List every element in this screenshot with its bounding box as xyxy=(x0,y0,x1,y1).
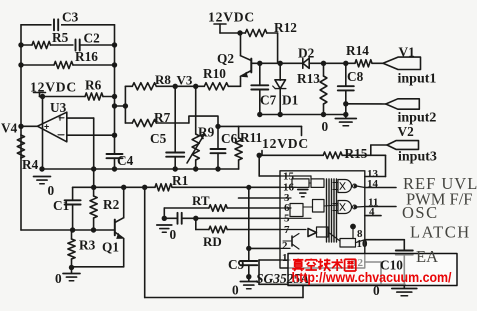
svg-text:C9: C9 xyxy=(228,257,245,272)
svg-text:OSC: OSC xyxy=(402,203,439,222)
svg-text:D2: D2 xyxy=(298,46,315,61)
svg-text:1: 1 xyxy=(282,252,288,264)
svg-text:Q1: Q1 xyxy=(102,240,119,255)
svg-text:LATCH: LATCH xyxy=(410,223,471,242)
svg-text:C3: C3 xyxy=(62,10,79,25)
svg-text:C5: C5 xyxy=(150,131,167,146)
svg-text:C2: C2 xyxy=(84,31,101,46)
svg-text:C7: C7 xyxy=(260,93,277,108)
svg-text:0: 0 xyxy=(232,283,239,298)
svg-text:input3: input3 xyxy=(398,150,437,165)
svg-text:V2: V2 xyxy=(398,124,415,139)
svg-text:EA: EA xyxy=(416,247,438,266)
svg-text:R15: R15 xyxy=(345,146,368,161)
svg-text:0: 0 xyxy=(48,183,55,198)
svg-text:+: + xyxy=(44,122,49,132)
svg-text:R1: R1 xyxy=(172,173,188,188)
svg-text:R12: R12 xyxy=(274,20,297,35)
svg-text:R11: R11 xyxy=(240,130,262,145)
svg-text:RT: RT xyxy=(192,193,210,208)
svg-text:D1: D1 xyxy=(282,93,298,108)
svg-text:0: 0 xyxy=(170,227,177,242)
svg-text:12VDC: 12VDC xyxy=(208,10,255,25)
svg-text:R2: R2 xyxy=(103,197,120,212)
svg-text:0: 0 xyxy=(55,271,62,286)
svg-text:R16: R16 xyxy=(75,49,98,64)
svg-text:C6: C6 xyxy=(221,131,238,146)
svg-text:C8: C8 xyxy=(347,69,364,84)
svg-text:http://www.chvacuum.com/: http://www.chvacuum.com/ xyxy=(292,270,452,285)
svg-text:R5: R5 xyxy=(52,30,69,45)
svg-text:2: 2 xyxy=(282,240,288,252)
svg-text:R9: R9 xyxy=(198,125,215,140)
svg-text:R10: R10 xyxy=(203,66,226,81)
svg-text:RD: RD xyxy=(203,234,222,249)
svg-text:R7: R7 xyxy=(154,110,171,125)
svg-text:V3: V3 xyxy=(177,73,193,88)
svg-text:R3: R3 xyxy=(79,238,96,253)
svg-text:Q2: Q2 xyxy=(217,51,234,66)
svg-text:R6: R6 xyxy=(85,78,102,93)
svg-text:C4: C4 xyxy=(117,153,134,168)
svg-text:R8: R8 xyxy=(155,72,171,87)
svg-text:V4: V4 xyxy=(1,121,18,136)
svg-text:C1: C1 xyxy=(53,198,69,213)
svg-text:R4: R4 xyxy=(22,157,39,172)
svg-text:R13: R13 xyxy=(297,71,320,86)
svg-text:0: 0 xyxy=(322,119,329,134)
svg-text:0: 0 xyxy=(373,283,380,298)
svg-text:12VDC: 12VDC xyxy=(262,136,309,151)
svg-text:input1: input1 xyxy=(398,72,437,87)
svg-text:U3: U3 xyxy=(50,100,67,115)
svg-text:V1: V1 xyxy=(399,45,415,60)
svg-text:R14: R14 xyxy=(346,43,369,58)
